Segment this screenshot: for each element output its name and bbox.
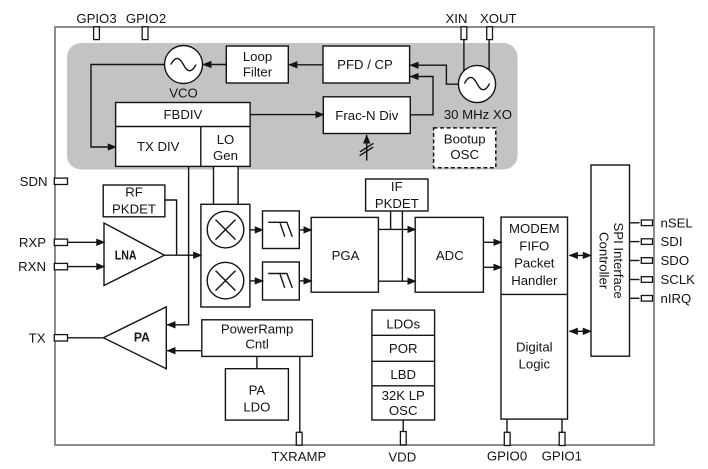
svg-text:Digital: Digital bbox=[516, 339, 553, 354]
block RF PKDET bbox=[103, 184, 165, 216]
svg-text:TX DIV: TX DIV bbox=[137, 139, 180, 154]
pin XOUT bbox=[480, 11, 517, 40]
svg-text:Bootup: Bootup bbox=[444, 131, 486, 146]
svg-text:nSEL: nSEL bbox=[661, 215, 693, 230]
wire FBDIV to Frac-N Div bbox=[250, 114, 324, 116]
wire Loop Filter to VCO bbox=[203, 64, 226, 66]
wire clock reference into Frac-N Div bbox=[360, 135, 374, 161]
block Bootup OSC (dashed) bbox=[434, 128, 496, 168]
wire 30 MHz XO to PFD/CP bbox=[410, 65, 458, 84]
pin RXP bbox=[19, 235, 68, 250]
block PowerRamp Cntl bbox=[202, 320, 313, 357]
svg-text:LDO: LDO bbox=[243, 399, 270, 414]
oscillator VCO bbox=[165, 46, 203, 101]
filter block 2 (lowpass) bbox=[263, 262, 300, 300]
svg-text:VCO: VCO bbox=[169, 86, 198, 101]
pin TX bbox=[29, 330, 68, 345]
wire TX pin to PA bbox=[68, 337, 104, 339]
wire TX DIV to PA bbox=[167, 166, 189, 324]
svg-text:RXN: RXN bbox=[18, 259, 46, 274]
wire IF PKDET tap upper bbox=[390, 211, 392, 229]
block PGA bbox=[311, 217, 378, 292]
svg-text:Controller: Controller bbox=[596, 232, 611, 290]
svg-text:32K LP: 32K LP bbox=[382, 388, 425, 403]
pin SCLK bbox=[641, 272, 695, 287]
wire PGA to ADC upper bbox=[378, 228, 416, 230]
svg-text:SDO: SDO bbox=[661, 253, 690, 268]
svg-text:LNA: LNA bbox=[115, 247, 137, 262]
block ADC bbox=[415, 217, 483, 292]
svg-text:PowerRamp: PowerRamp bbox=[221, 322, 294, 337]
wire LDO stack to VDD bbox=[402, 420, 404, 432]
wire PFD/CP to Loop Filter bbox=[289, 64, 323, 66]
block PFD / CP bbox=[323, 46, 410, 83]
wire MODEM to SPI (bidirectional) bbox=[569, 254, 591, 256]
wire Digital Logic to GPIO0 bbox=[506, 419, 508, 432]
svg-text:XOUT: XOUT bbox=[480, 11, 517, 26]
block Frac-N Div bbox=[323, 97, 410, 134]
wire filter 1 to PGA bbox=[299, 229, 312, 231]
pin GPIO0 bbox=[487, 432, 527, 463]
wire PowerRamp Cntl to TXRAMP bbox=[299, 356, 301, 432]
chip outline bbox=[55, 27, 654, 445]
wire IF PKDET tap lower bbox=[401, 211, 403, 281]
svg-text:GPIO3: GPIO3 bbox=[76, 11, 116, 26]
svg-text:MODEM: MODEM bbox=[509, 221, 560, 236]
svg-text:GPIO0: GPIO0 bbox=[487, 449, 527, 464]
svg-text:SDI: SDI bbox=[661, 234, 683, 249]
svg-text:LDOs: LDOs bbox=[386, 316, 420, 331]
wire filter 2 to PGA bbox=[299, 280, 312, 282]
svg-text:Logic: Logic bbox=[519, 356, 551, 371]
svg-text:SCLK: SCLK bbox=[661, 272, 696, 287]
svg-text:Cntl: Cntl bbox=[245, 337, 269, 352]
wire VCO feedback to TX DIV bbox=[91, 65, 165, 148]
svg-text:30 MHz XO: 30 MHz XO bbox=[444, 107, 512, 122]
wire ADC to MODEM upper bbox=[483, 241, 501, 243]
svg-text:IF: IF bbox=[391, 179, 403, 194]
wire SPI to SDO bbox=[630, 260, 640, 262]
wire RXP to LNA bbox=[67, 241, 104, 243]
wire XIN to XO bbox=[463, 40, 465, 72]
svg-text:SPI Interface: SPI Interface bbox=[611, 222, 626, 298]
pin nIRQ bbox=[641, 291, 691, 306]
block LDOs / POR / LBD / 32K LP OSC bbox=[372, 310, 435, 420]
wire LNA to mixers bbox=[164, 254, 201, 256]
pin nSEL bbox=[641, 215, 692, 230]
filter block 1 (lowpass) bbox=[263, 211, 300, 249]
wire mixer to filter 2 bbox=[250, 280, 263, 282]
svg-text:GPIO1: GPIO1 bbox=[542, 449, 582, 464]
svg-text:PA: PA bbox=[134, 330, 150, 345]
svg-text:Filter: Filter bbox=[243, 65, 273, 80]
pin VDD bbox=[388, 432, 416, 465]
wire Frac-N Div to PFD/CP bbox=[410, 77, 433, 115]
svg-text:PA: PA bbox=[249, 383, 266, 398]
wire SPI to nSEL bbox=[630, 222, 640, 224]
svg-text:LBD: LBD bbox=[390, 367, 416, 382]
wire RXN to LNA bbox=[67, 266, 104, 268]
wire PowerRamp Cntl to PA LDO bbox=[256, 356, 258, 368]
pin SDO bbox=[641, 253, 689, 268]
svg-text:SDN: SDN bbox=[20, 174, 48, 189]
svg-text:OSC: OSC bbox=[389, 403, 418, 418]
wire RF PKDET tap bbox=[165, 200, 177, 255]
svg-text:OSC: OSC bbox=[450, 147, 479, 162]
mixer block (I/Q mixers) bbox=[201, 204, 250, 307]
svg-text:RXP: RXP bbox=[19, 235, 46, 250]
node LO corridor (white channel from LO Gen to mixers) bbox=[214, 166, 239, 204]
wire SPI to SCLK bbox=[630, 279, 640, 281]
svg-text:Gen: Gen bbox=[213, 148, 238, 163]
pin TXRAMP bbox=[271, 432, 326, 464]
svg-text:Handler: Handler bbox=[511, 273, 558, 288]
block PA LDO bbox=[225, 369, 288, 420]
pin SDN bbox=[20, 174, 68, 189]
svg-text:TX: TX bbox=[29, 330, 46, 345]
pin GPIO3 bbox=[76, 11, 116, 40]
oscillator 30 MHz XO bbox=[444, 65, 512, 122]
svg-text:POR: POR bbox=[389, 341, 418, 356]
block Loop Filter bbox=[226, 46, 288, 83]
svg-text:FIFO: FIFO bbox=[519, 238, 549, 253]
pin SDI bbox=[641, 234, 682, 249]
svg-text:PKDET: PKDET bbox=[112, 202, 156, 217]
svg-text:Packet: Packet bbox=[514, 256, 555, 271]
block IF PKDET bbox=[366, 179, 428, 211]
wire ADC to MODEM lower bbox=[483, 266, 501, 268]
svg-text:ADC: ADC bbox=[436, 248, 464, 263]
pin GPIO2 bbox=[126, 11, 166, 40]
amplifier PA bbox=[103, 307, 166, 369]
block MODEM FIFO Packet Handler / Digital Logic bbox=[501, 217, 568, 419]
svg-text:LO: LO bbox=[217, 132, 235, 147]
svg-text:FBDIV: FBDIV bbox=[163, 107, 202, 122]
svg-text:GPIO2: GPIO2 bbox=[126, 11, 166, 26]
amplifier LNA bbox=[104, 223, 164, 286]
pin GPIO1 bbox=[542, 432, 582, 463]
wire PGA to ADC lower bbox=[378, 280, 416, 282]
wire Digital Logic to GPIO1 bbox=[561, 419, 563, 432]
svg-text:PGA: PGA bbox=[332, 248, 360, 263]
svg-text:Loop: Loop bbox=[243, 49, 272, 64]
svg-text:XIN: XIN bbox=[446, 11, 468, 26]
svg-text:VDD: VDD bbox=[388, 449, 416, 464]
block FBDIV / TX DIV / LO Gen bbox=[116, 103, 251, 167]
wire SPI to SDI bbox=[630, 241, 640, 243]
svg-text:nIRQ: nIRQ bbox=[661, 291, 692, 306]
block SPI Interface Controller bbox=[591, 165, 630, 356]
svg-text:RF: RF bbox=[125, 184, 143, 199]
pin XIN bbox=[446, 11, 468, 40]
wire mixer to filter 1 bbox=[250, 229, 263, 231]
svg-text:TXRAMP: TXRAMP bbox=[271, 449, 326, 464]
wire PowerRamp Cntl to PA bbox=[167, 350, 202, 352]
synthesizer analog region (gray) bbox=[67, 43, 518, 170]
svg-text:PFD / CP: PFD / CP bbox=[337, 57, 393, 72]
wire SPI to nIRQ bbox=[630, 297, 640, 299]
svg-text:Frac-N Div: Frac-N Div bbox=[335, 108, 398, 123]
wire Digital Logic to SPI (bidirectional) bbox=[569, 330, 591, 332]
wire XOUT to XO bbox=[488, 40, 490, 71]
pin RXN bbox=[18, 259, 67, 274]
svg-text:PKDET: PKDET bbox=[375, 196, 419, 211]
